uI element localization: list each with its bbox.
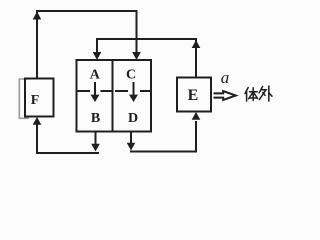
svg-text:a: a — [221, 68, 230, 87]
svg-text:D: D — [128, 111, 138, 126]
svg-text:B: B — [91, 111, 100, 126]
svg-text:E: E — [188, 87, 199, 104]
svg-text:A: A — [90, 68, 101, 83]
svg-text:F: F — [31, 93, 40, 108]
svg-text:C: C — [126, 68, 136, 83]
